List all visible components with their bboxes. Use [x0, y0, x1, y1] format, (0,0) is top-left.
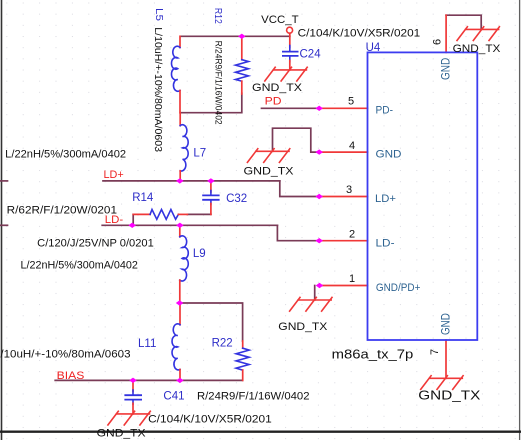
- wire LD+ left stub: [0, 180, 8, 182]
- wire LD- net: [102, 224, 277, 226]
- svg-text:L11: L11: [138, 338, 156, 350]
- svg-text:VCC_T: VCC_T: [261, 14, 299, 26]
- page frame bottom border: [0, 431, 521, 433]
- wire L11/R22 top rail: [180, 303, 243, 341]
- wire R14 left riser: [132, 214, 134, 225]
- wire GND to pin 4: [273, 128, 320, 152]
- pin 7 stub: [445, 340, 447, 378]
- pin 1 stub: [320, 285, 368, 287]
- svg-text:5: 5: [348, 96, 354, 108]
- node VCC_T rail junction: [238, 34, 246, 39]
- wire pin 1 ground riser: [314, 286, 316, 301]
- wire pin 6 elbow: [446, 15, 481, 29]
- svg-text:GND_TX: GND_TX: [278, 321, 328, 333]
- svg-text:R/24R9/F/1/16W/0402: R/24R9/F/1/16W/0402: [214, 41, 224, 125]
- svg-text:R/62R/F/1/20W/0201: R/62R/F/1/20W/0201: [7, 204, 117, 216]
- svg-text:L/10uH/+-10%/80mA/0603: L/10uH/+-10%/80mA/0603: [0, 349, 131, 361]
- svg-text:L/22nH/5%/300mA/0402: L/22nH/5%/300mA/0402: [5, 148, 126, 160]
- svg-text:R12: R12: [212, 8, 224, 24]
- power symbol VCC_T: [287, 27, 293, 47]
- svg-text:6: 6: [432, 39, 444, 45]
- node PD junction: [315, 106, 323, 111]
- inductor L9: [180, 225, 188, 303]
- ground GND_TX under C41: [108, 411, 150, 425]
- svg-text:2: 2: [349, 229, 355, 241]
- svg-text:GND_TX: GND_TX: [97, 428, 147, 440]
- inductor L11: [172, 303, 180, 380]
- svg-text:C32: C32: [226, 193, 247, 205]
- IC U4 body: [368, 52, 478, 340]
- pin 5 stub: [319, 107, 367, 109]
- resistor R12: [236, 36, 249, 94]
- svg-text:L7: L7: [193, 148, 206, 160]
- capacitor C32: [203, 181, 219, 215]
- pin 4 stub: [319, 151, 367, 153]
- pin 2 stub: [319, 240, 367, 242]
- wire PD net: [262, 107, 320, 109]
- svg-text:PD-: PD-: [376, 105, 394, 117]
- ground GND_TX under pin 4: [247, 149, 289, 163]
- inductor L7: [180, 113, 188, 181]
- svg-text:BIAS: BIAS: [57, 370, 85, 382]
- svg-text:R14: R14: [132, 192, 154, 204]
- svg-text:GND_TX: GND_TX: [252, 82, 303, 94]
- wire LD- left stub: [0, 224, 8, 226]
- svg-text:L/22nH/5%/300mA/0402: L/22nH/5%/300mA/0402: [21, 260, 138, 272]
- svg-text:C24: C24: [300, 49, 322, 61]
- svg-text:GND: GND: [376, 149, 402, 161]
- svg-text:C/120/J/25V/NP 0/0201: C/120/J/25V/NP 0/0201: [37, 238, 154, 250]
- pin 6 stub: [445, 15, 447, 52]
- svg-text:PD: PD: [265, 96, 282, 108]
- svg-text:m86a_tx_7p: m86a_tx_7p: [332, 347, 414, 362]
- node LD+ L7 junction: [176, 178, 184, 183]
- node BIAS C41 junction: [129, 378, 137, 383]
- svg-text:GND_TX: GND_TX: [244, 166, 295, 178]
- pin 3 stub: [319, 196, 367, 198]
- wire LD- to pin 2: [277, 225, 319, 240]
- svg-text:L9: L9: [193, 248, 206, 260]
- wire LD+ to pin 3: [280, 181, 319, 197]
- page frame left border: [1, 0, 3, 440]
- ground GND_TX at pin 6: [457, 27, 499, 41]
- svg-text:1: 1: [349, 273, 355, 285]
- svg-text:GND_TX: GND_TX: [418, 389, 481, 403]
- capacitor C24: [283, 46, 298, 70]
- wire L5/R12 bottom rail: [181, 93, 242, 113]
- page frame right border: [519, 0, 521, 440]
- svg-text:L5: L5: [153, 8, 165, 21]
- svg-text:LD-: LD-: [105, 214, 124, 226]
- node BIAS L11 junction: [176, 378, 184, 383]
- svg-text:GND: GND: [441, 313, 453, 335]
- ground GND_TX under C24: [265, 67, 307, 81]
- svg-text:R22: R22: [212, 338, 233, 350]
- svg-text:U4: U4: [366, 42, 381, 54]
- resistor R22: [236, 341, 249, 380]
- svg-text:GND: GND: [441, 58, 453, 80]
- svg-text:R/24R9/F/1/16W/0402: R/24R9/F/1/16W/0402: [197, 391, 310, 403]
- svg-text:LD+: LD+: [375, 193, 396, 205]
- node LD- L9 junction: [176, 223, 184, 228]
- node pin1 junction: [316, 283, 324, 288]
- svg-text:LD+: LD+: [104, 169, 124, 181]
- capacitor C41: [125, 380, 141, 414]
- node pin3 junction: [315, 194, 323, 199]
- node LD- R14 junction: [128, 223, 136, 228]
- svg-text:3: 3: [346, 184, 352, 196]
- inductor L5: [171, 36, 180, 112]
- svg-text:C41: C41: [163, 391, 184, 403]
- resistor R14: [133, 210, 187, 220]
- svg-text:C/104/K/10V/X5R/0201: C/104/K/10V/X5R/0201: [298, 27, 421, 39]
- svg-text:GND_TX: GND_TX: [453, 43, 502, 55]
- ground GND_TX at pin 7: [421, 376, 463, 390]
- wire R14 to C32: [187, 213, 211, 215]
- wire LD+ net: [103, 180, 280, 182]
- svg-text:L/10uH/+-10%/80mA/0603: L/10uH/+-10%/80mA/0603: [152, 27, 164, 152]
- svg-text:GND/PD+: GND/PD+: [376, 282, 421, 294]
- node pin4 junction: [315, 149, 323, 154]
- node LD+ C32 junction: [207, 178, 215, 183]
- svg-text:LD-: LD-: [376, 237, 395, 249]
- svg-text:C/104/K/10V/X5R/0201: C/104/K/10V/X5R/0201: [148, 414, 272, 426]
- wire VCC_T top rail: [181, 35, 290, 37]
- svg-text:7: 7: [429, 349, 441, 355]
- node pin2 junction: [315, 238, 323, 243]
- ground GND_TX under pin 1: [290, 297, 332, 311]
- wire BIAS net: [55, 379, 242, 381]
- node L9 bottom junction: [176, 300, 184, 305]
- svg-text:4: 4: [349, 140, 355, 152]
